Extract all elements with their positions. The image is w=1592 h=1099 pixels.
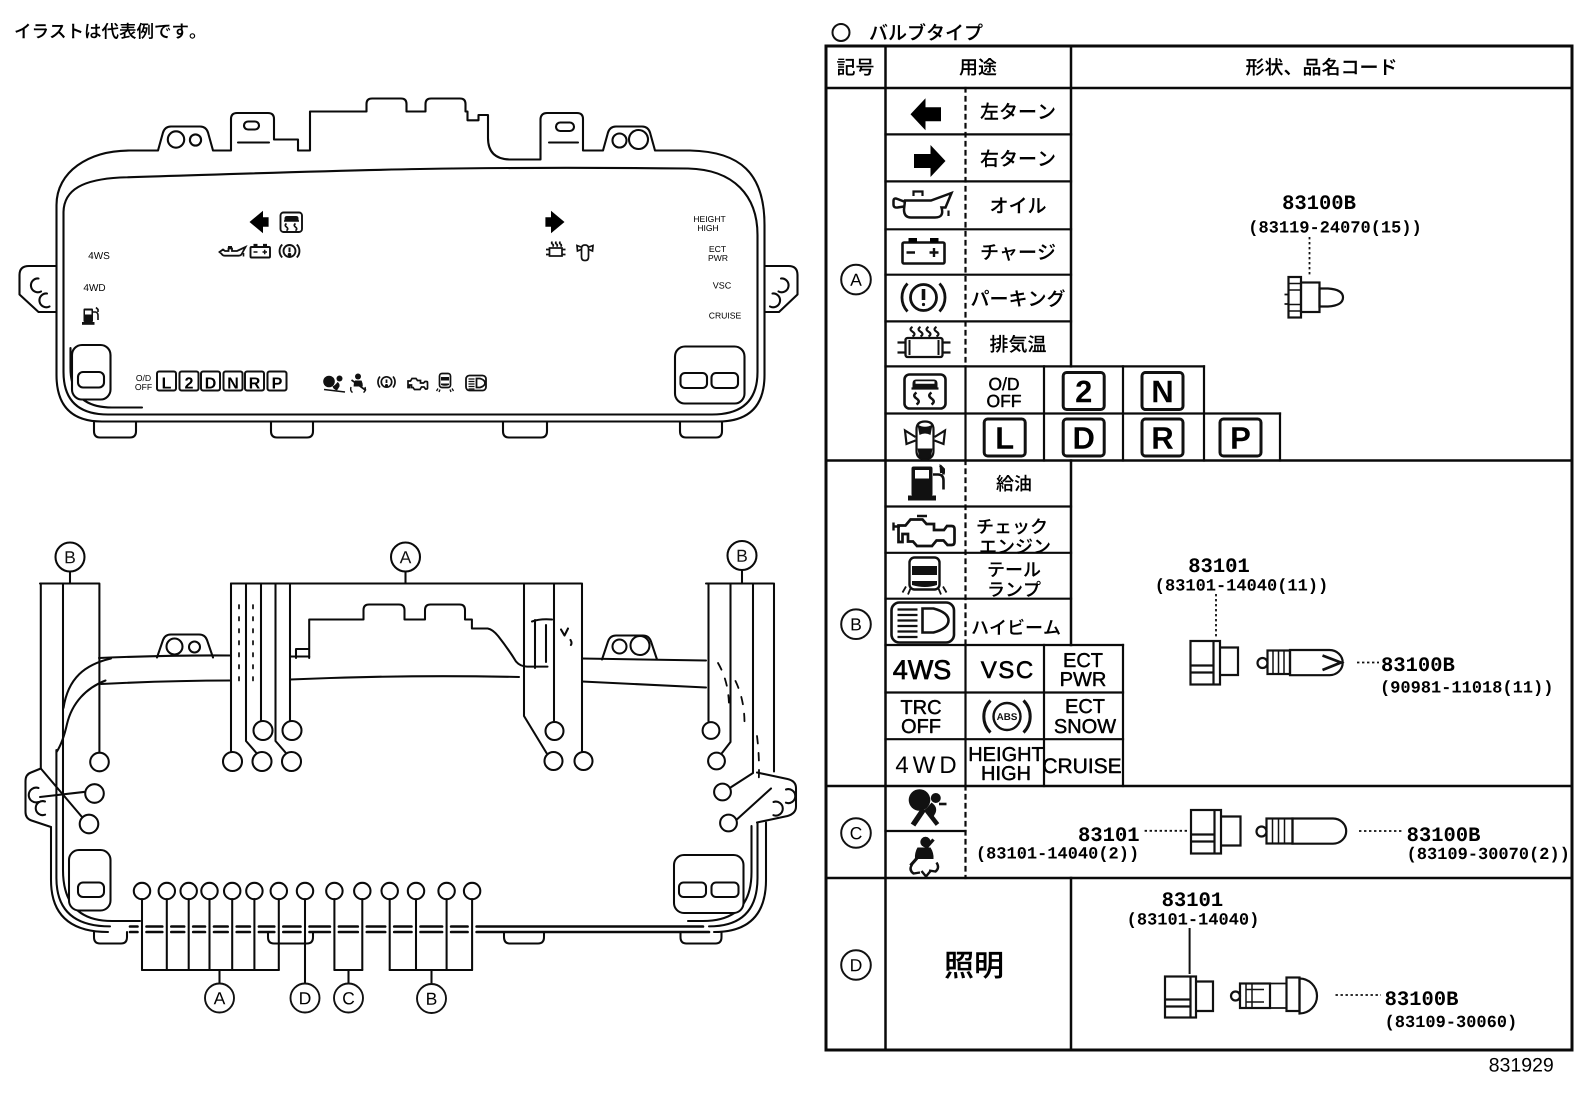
mini door car: [577, 245, 593, 261]
right button: [675, 347, 745, 404]
text VSC: [713, 282, 731, 288]
bottom cluster drawing: [26, 541, 797, 984]
label チャージ: [982, 244, 1056, 261]
part number 83100B (C): [1408, 827, 1480, 841]
label TRC OFF: [901, 700, 941, 733]
socket+bulb A: [1285, 277, 1344, 318]
part code (83101-14040(11)): [1158, 578, 1326, 594]
leader dotted (B): [1215, 594, 1217, 637]
band lower line: [101, 676, 706, 687]
mini slip box: [281, 213, 303, 233]
gear box P: [1220, 419, 1261, 456]
icon right turn arrow: [914, 145, 946, 177]
header 形状、品名コード: [1246, 58, 1396, 76]
group bracket A: [142, 970, 279, 984]
label ECT PWR: [1061, 653, 1105, 686]
bulb position circles and wires: [134, 883, 150, 899]
mini gear box R: [245, 372, 264, 391]
group bracket B: [390, 970, 472, 984]
bulb B wedge: [1258, 650, 1343, 675]
group label circle A: [205, 984, 234, 1013]
header 記号: [837, 59, 873, 76]
label パーキング: [971, 289, 1065, 307]
icon door open: [905, 422, 945, 460]
bottom tabs: [94, 422, 136, 438]
text O/D OFF mini: [135, 375, 152, 390]
mini seatbelt: [351, 374, 366, 393]
mini exhaust: [546, 242, 566, 256]
middle channel lines: [231, 584, 290, 753]
middle channel circles: [223, 752, 242, 771]
label ハイビーム: [972, 619, 1060, 635]
cluster inner face line: [64, 168, 758, 415]
left channel lines: [41, 584, 140, 922]
left mount tab on band: [157, 635, 213, 658]
part code (83109-30070(2)): [1410, 847, 1568, 863]
leader dotted (A): [1309, 237, 1311, 276]
header 用途: [960, 58, 997, 76]
gear rows lines: [886, 365, 1205, 367]
icon fuel: [908, 464, 945, 501]
mini oil: [220, 247, 246, 257]
left side tab: [20, 266, 57, 312]
inner corner arc bottom-left: [71, 348, 143, 408]
kigo circled A: [841, 265, 871, 295]
label 排気温: [990, 335, 1046, 353]
cluster outer case outline: [57, 99, 765, 422]
right top tab inner line: [549, 141, 578, 143]
mini gear box D: [201, 372, 220, 391]
channel A2 lines: [524, 584, 582, 754]
note text イラストは代表例です。: [15, 23, 195, 39]
body left edge lines: [51, 750, 110, 932]
part code (90981-11018(11)): [1383, 680, 1551, 696]
gear box N: [1142, 373, 1183, 410]
icon tail lamp: [903, 558, 947, 595]
band upper line: [99, 655, 706, 660]
label 給油: [996, 475, 1030, 492]
gear box L: [984, 419, 1025, 456]
left button: [72, 345, 111, 400]
title text バルブタイプ: [870, 23, 983, 40]
channel A2 circles: [546, 722, 564, 740]
group label circle C: [334, 984, 363, 1013]
mini gear box N: [224, 372, 243, 391]
top cluster drawing: [20, 99, 798, 438]
table outer border: [826, 46, 1572, 1050]
icon left turn arrow: [911, 98, 942, 130]
center profile: [296, 605, 548, 667]
bulb D dome: [1231, 978, 1317, 1014]
section C icon divider: [886, 830, 966, 832]
group label circle B: [417, 984, 446, 1013]
hanger top line segments: [40, 582, 773, 584]
left C-tab: [26, 769, 52, 828]
right top tab inner oval: [556, 123, 574, 132]
label 右ターン: [981, 149, 1055, 167]
mini gear box 2: [180, 372, 199, 391]
part code (83119-24070(15)): [1251, 220, 1419, 236]
icon parking brake: [902, 284, 945, 312]
mini gear box P: [268, 372, 287, 391]
mini battery: [251, 245, 271, 258]
part number 83100B (B): [1382, 657, 1454, 671]
mini left arrow: [250, 211, 269, 233]
label 左ターン: [980, 102, 1054, 119]
label HEIGHT HIGH: [970, 747, 1043, 780]
icon ABS: [984, 701, 1030, 733]
label circle B left: [56, 543, 85, 584]
buttons: [69, 850, 111, 911]
part number 83100B (A): [1283, 195, 1355, 209]
table full-width horizontal lines: [826, 87, 1572, 90]
kigo circled B: [841, 609, 871, 639]
right mount tab on band: [602, 636, 657, 660]
label テールランプ: [989, 562, 1041, 597]
socket B: [1191, 641, 1239, 685]
label 4WS: [893, 660, 950, 679]
mini fuel: [82, 308, 98, 325]
text 4WS: [88, 252, 109, 259]
label オイル: [991, 197, 1046, 213]
icon oil: [894, 192, 952, 218]
icon slip indicator: [905, 375, 946, 409]
mini tail lamp: [437, 374, 454, 393]
label CRUISE: [1043, 758, 1120, 773]
mini brake circle: [378, 377, 395, 388]
label チェックエンジン: [978, 518, 1050, 554]
gear box D: [1063, 419, 1104, 456]
label 4WD: [896, 757, 956, 774]
leader dotted (D right): [1336, 994, 1382, 996]
column line yoto right: [1070, 46, 1073, 1050]
label 照明: [945, 952, 1002, 979]
middle channel dashes: [239, 605, 253, 688]
bottom tabs: [94, 932, 127, 944]
mini right arrow: [545, 211, 564, 233]
column line kigo: [884, 46, 887, 1050]
part number 83101 (D): [1163, 892, 1223, 906]
partial tab marks behind channel: [532, 619, 552, 668]
icon check engine: [894, 516, 955, 546]
text CRUISE: [709, 313, 741, 319]
bottom edge dashed lines: [130, 925, 703, 928]
kigo circled C: [841, 818, 871, 848]
left diagonals: [40, 769, 85, 818]
mini high beam: [466, 376, 486, 391]
icon battery: [903, 238, 945, 264]
part number 83101 (B): [1189, 558, 1249, 572]
label VSC: [981, 661, 1032, 678]
label circle A: [391, 543, 420, 584]
right C-tab: [757, 773, 796, 823]
icon airbag: [909, 789, 947, 825]
part number 83101 (C): [1079, 827, 1139, 841]
socket C: [1191, 810, 1241, 854]
text HEIGHT HIGH: [694, 216, 726, 231]
group bracket C: [334, 970, 362, 984]
body right edge lines: [688, 823, 766, 933]
right side tab: [765, 266, 798, 312]
right diagonal: [737, 789, 771, 820]
group label circle D: [291, 984, 320, 1013]
big tab inner line: [238, 141, 269, 143]
mini engine: [408, 379, 428, 390]
icon seatbelt: [911, 837, 939, 877]
mini airbag: [323, 376, 345, 393]
section A sub-row lines: [886, 133, 1072, 135]
socket D: [1165, 977, 1213, 1018]
big tab inner oval: [244, 122, 259, 130]
gear box R: [1142, 419, 1183, 456]
left mount tab circles: [168, 131, 184, 147]
icon high beam: [892, 603, 955, 643]
part code (83101-14040): [1130, 912, 1257, 928]
kigo circled D: [841, 950, 871, 980]
dashed icon/text divider: [964, 88, 966, 878]
bulb C capsule: [1257, 819, 1347, 844]
right channel circles: [703, 722, 720, 739]
part code (83109-30060): [1388, 1015, 1515, 1031]
right mount tab circles: [613, 134, 627, 148]
right dashed hints: [718, 663, 759, 785]
label circle B right: [728, 541, 757, 584]
wire D: [304, 899, 306, 983]
leader dotted to 83100B (B): [1357, 662, 1379, 664]
label O/D OFF: [987, 377, 1021, 407]
leader dotted (C left): [1145, 830, 1188, 832]
mini gear box L: [157, 372, 176, 391]
mini parking: [280, 245, 300, 258]
icon exhaust temp: [898, 327, 951, 357]
right channel lines: [709, 584, 775, 788]
sheet number 831929: [1490, 1058, 1553, 1072]
text ECT PWR: [709, 246, 728, 261]
band left bend curves: [57, 659, 111, 753]
text 4WD: [84, 284, 106, 291]
label ECT SNOW: [1055, 699, 1116, 733]
part code (83101-14040(2)): [979, 846, 1137, 862]
left channel circles: [90, 753, 109, 772]
title circle: [833, 24, 850, 41]
part number 83100B (D): [1386, 991, 1458, 1005]
gear box 2: [1063, 373, 1104, 410]
leader dotted (C right): [1359, 830, 1403, 832]
section B sub-row lines: [886, 505, 1072, 507]
leader solid (D): [1189, 928, 1191, 974]
